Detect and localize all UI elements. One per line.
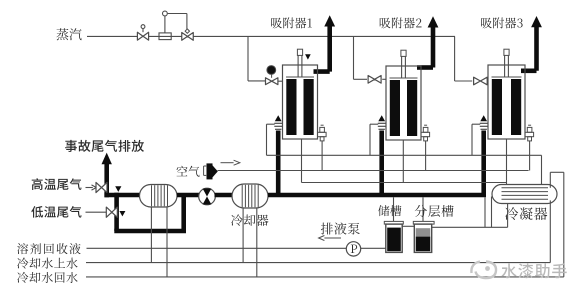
cooler 2 water supply riser — [242, 208, 244, 263]
adsorber 1 bottom-left check valve (triangle) — [275, 115, 282, 121]
pipe cooler1 to blower — [177, 193, 200, 198]
emergency vent pipe with up arrow — [104, 162, 109, 198]
storage tank lid — [384, 221, 403, 224]
label adsorber1 吸附器1 — [271, 17, 312, 28]
air flow arrow — [221, 162, 235, 164]
condenser bottom drain — [507, 204, 509, 228]
steam main line — [87, 35, 455, 37]
steam drop to adsorber 3 — [454, 36, 456, 81]
adsorber 2 right drop to manifold B — [425, 141, 427, 171]
tank interconnect — [402, 225, 414, 227]
low-temp tail gas line — [86, 211, 107, 213]
adsorber 2 center drain to manifold C — [402, 140, 404, 183]
condenser shell — [492, 185, 557, 204]
label 储槽 storage tank — [378, 205, 401, 216]
high-temp tail gas valve — [96, 182, 107, 192]
adsorber 1 right drop to manifold B — [321, 141, 323, 171]
condenser tubes — [502, 187, 549, 189]
label 空气 air — [177, 166, 200, 177]
cooling water supply line — [86, 262, 550, 264]
adsorber 3 vessel shell — [488, 65, 525, 139]
adsorber 1 gas feed thick drop — [276, 131, 281, 194]
adsorber 2 vessel shell — [386, 66, 421, 140]
label 冷凝器 condenser — [505, 207, 547, 220]
separation tank lid — [413, 221, 434, 224]
adsorber 2 left drain elbow to manifold A — [370, 123, 378, 125]
label adsorber2 吸附器2 — [380, 17, 422, 28]
condenser drain left-end — [491, 197, 493, 228]
pipe blower to cooler 2 — [215, 193, 233, 198]
label adsorber3 吸附器3 — [481, 17, 523, 28]
air filter bracket — [203, 166, 205, 175]
condenser cooling water in riser — [549, 200, 551, 262]
adsorber 2 exhaust pipe (thick elbow + up arrow) — [417, 65, 433, 70]
branch vertical to low-temp valve — [114, 193, 119, 231]
manifold B (air blow header) — [218, 170, 529, 172]
adsorber 3 right drop to manifold B — [529, 141, 531, 171]
cooling water return line — [86, 276, 564, 278]
flow marker at high-temp junction — [115, 186, 121, 192]
adsorber 3 top nozzle — [504, 49, 509, 55]
watermark text 水漆助手 — [501, 263, 566, 278]
blower (circle with black impeller) — [199, 188, 216, 205]
label 分层槽 separation tank — [415, 205, 454, 217]
bypass riser joining main line — [181, 195, 186, 231]
recovered solvent flow arrow (left) — [323, 237, 342, 239]
main gas line to cooler 1 — [104, 193, 139, 198]
pilot circle — [163, 11, 168, 16]
adsorber 1 center drain to manifold C — [301, 139, 303, 183]
drain riser to separator tank — [422, 197, 424, 221]
air blower symbol (black) — [207, 163, 213, 179]
adsorber 3 exhaust pipe (thick elbow + up arrow) — [521, 69, 537, 74]
label 冷却水上水 — [17, 258, 78, 269]
adsorber 1 inlet control valve with black actuator — [278, 80, 283, 82]
steam drop to adsorber 2 — [353, 36, 355, 79]
adsorber 3 center drain down into condenser — [506, 139, 508, 185]
cooler 1 tube stripes — [151, 185, 153, 206]
adsorber 3 bottom-right nozzle fitting — [525, 132, 534, 136]
adsorber 3 inlet valve — [474, 77, 488, 85]
label 低温尾气 low-temp tail gas — [31, 206, 81, 218]
solvent recovery line — [87, 247, 386, 249]
adsorber 1 vessel shell — [283, 65, 318, 139]
manifold C (desorbed vapour header) — [302, 182, 507, 184]
steam trap / orifice box — [159, 33, 171, 40]
label 冷却器 cooler — [231, 214, 268, 226]
condensate line to separator tank — [432, 226, 508, 228]
adsorber 2 bottom-right nozzle fitting — [421, 132, 430, 136]
adsorber 1 exhaust pipe (thick elbow + up arrow) — [314, 69, 330, 74]
adsorber 2 bottom-left check valve (triangle) — [378, 115, 385, 121]
label steam 蒸汽 — [56, 28, 81, 40]
adsorber 3 bed internals — [492, 76, 522, 78]
label 溶剂回收液 — [17, 243, 81, 254]
high-temp tail gas line with arrow — [86, 187, 93, 189]
steam drop to adsorber 1 — [247, 36, 249, 81]
cooler 1 shell — [140, 185, 178, 208]
cooler 1 water return riser — [166, 207, 168, 277]
gas bus drain — [484, 197, 486, 227]
adsorber 3 bottom-left check valve (triangle) — [480, 115, 487, 121]
flow marker at low-temp junction — [119, 211, 125, 216]
steam control valve 2 with diamond actuator — [185, 29, 189, 33]
watermark logo — [471, 262, 496, 279]
label 排液泵 drain pump — [321, 222, 360, 234]
adsorber 1 left drain elbow to manifold A — [267, 123, 275, 125]
separation tank body — [414, 224, 431, 252]
storage tank body — [386, 224, 402, 252]
adsorber 2 bed internals — [390, 77, 418, 79]
pump P — [346, 242, 360, 256]
label 事故尾气排放 emergency vent — [65, 140, 144, 152]
cooler 2 tube stripes — [241, 185, 243, 207]
cooler 2 shell — [232, 184, 268, 208]
low-temp bypass pipe — [114, 229, 186, 234]
label 冷却水回水 — [17, 272, 78, 283]
adsorber 1 bed internals — [286, 76, 314, 78]
adsorber 1 bottom-right nozzle fitting — [318, 132, 327, 136]
main gas bus to adsorbers — [268, 193, 486, 198]
label 高温尾气 high-temp tail gas — [32, 178, 82, 190]
manifold A drop into condenser — [541, 155, 543, 184]
steam valve 1 (hand valve with stem) — [142, 29, 144, 33]
drain riser to storage tank — [393, 197, 395, 221]
cooler 1 water supply riser — [150, 207, 152, 263]
low-temp tail gas valve — [106, 207, 117, 217]
adsorber 3 left drain elbow to manifold A — [472, 123, 480, 125]
condenser cooling water out (over-the-top loop) — [549, 172, 551, 188]
adsorber 3 bottom-left flange stack — [480, 122, 488, 124]
adsorber 2 gas feed thick drop — [379, 131, 384, 194]
adsorber 3 gas feed thick drop — [481, 131, 486, 194]
adsorber 1 bottom-left flange stack — [274, 122, 282, 124]
adsorber 1 top nozzle — [297, 49, 302, 55]
adsorber 2 inlet valve — [382, 78, 386, 80]
adsorber 2 top nozzle — [401, 50, 406, 56]
cooler 2 water return riser — [256, 208, 258, 277]
vapor marker triangle at adsorber 1 nozzle — [305, 54, 311, 59]
adsorber 2 bottom-left flange stack — [378, 122, 386, 124]
manifold A (steam condensate header to condenser) — [267, 154, 542, 156]
